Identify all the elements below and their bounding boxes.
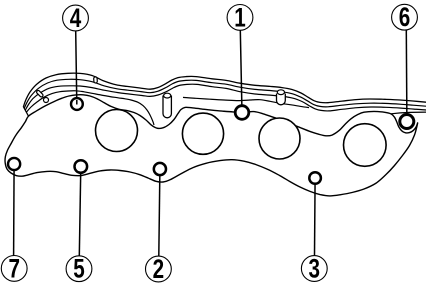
- callout circle 1: [227, 5, 253, 31]
- svg-text:3: 3: [309, 254, 320, 284]
- manifold top band line 1: [24, 73, 426, 106]
- bolt hole 5: [75, 160, 88, 173]
- wire leader line to item 5: [79, 167, 81, 257]
- slot on band left: [38, 92, 41, 95]
- leader stub into hole 4: [76, 100, 78, 105]
- bolt hole 3: [309, 172, 321, 184]
- fold line segment near hole 1: [183, 97, 309, 107]
- svg-text:2: 2: [153, 255, 164, 285]
- wire leader line to item 2: [159, 169, 160, 256]
- port opening A: [96, 110, 138, 152]
- stud tab 1 top ellipse: [164, 93, 171, 98]
- slot on band at step: [93, 79, 98, 82]
- svg-text:7: 7: [8, 254, 19, 284]
- callout circle 2: [146, 256, 172, 282]
- wire leader line to item 1: [240, 30, 242, 113]
- callout circle 4: [63, 5, 89, 31]
- port opening D: [344, 124, 387, 167]
- port opening B: [182, 113, 223, 154]
- manifold top band line 3: [25, 84, 426, 111]
- stud tab 2 top ellipse: [277, 90, 284, 95]
- callout circle 6: [392, 4, 418, 30]
- wire leader line to item 4: [76, 31, 77, 104]
- band left end cap: [23, 106, 28, 116]
- bolt hole 2: [154, 163, 166, 175]
- manifold top band line 4: [26, 91, 154, 125]
- bolt hole 1: [235, 106, 249, 120]
- manifold top band line 2: [24, 79, 426, 108]
- svg-text:4: 4: [70, 4, 82, 34]
- svg-text:6: 6: [399, 3, 410, 33]
- stud tab 2 body: [277, 94, 286, 105]
- wire leader line to item 3: [314, 178, 317, 255]
- svg-text:5: 5: [73, 254, 84, 284]
- callout circle 7: [1, 256, 27, 282]
- callout circle 3: [301, 256, 327, 282]
- bolt hole 7: [8, 158, 20, 170]
- svg-text:1: 1: [234, 3, 245, 33]
- wire leader line to item 7: [13, 164, 16, 256]
- stud tab 1 body: [163, 96, 171, 118]
- gasket face outline: [5, 95, 418, 196]
- bolt hole 4: [71, 98, 83, 110]
- bolt hole 6: [400, 115, 414, 129]
- wire leader line to item 6: [405, 30, 408, 122]
- callout circle 5: [66, 256, 92, 282]
- small hole on band left: [44, 98, 49, 103]
- flange cut edge line at right: [391, 112, 426, 114]
- port opening C: [259, 118, 300, 159]
